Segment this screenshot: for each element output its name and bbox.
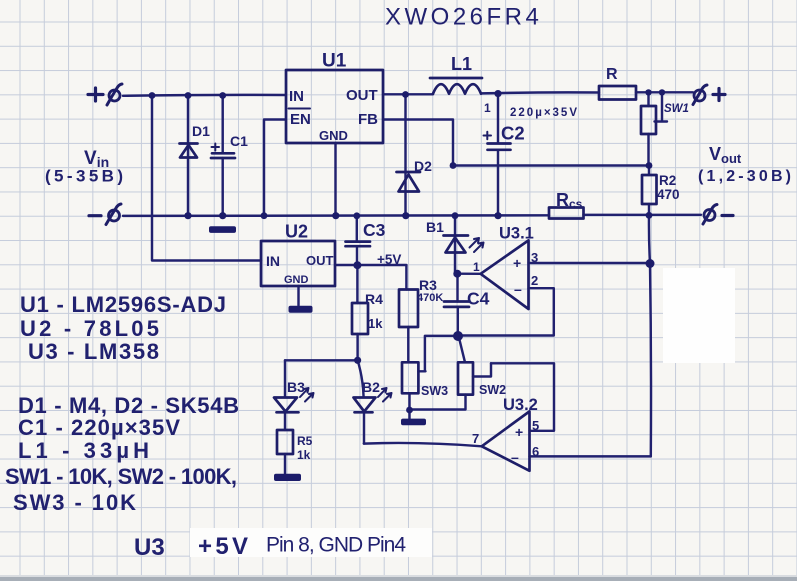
wire FB rail: [453, 164, 649, 166]
capacitor C3 plates: [346, 242, 371, 247]
junction dot +5V: [353, 261, 361, 269]
svg-text:1k: 1k: [297, 448, 311, 462]
wire SW3-SW2 bottom link: [410, 395, 466, 410]
svg-text:(5-35B): (5-35B): [45, 167, 123, 186]
junction dot SW3 bottom: [406, 407, 413, 414]
wire R4 stubs: [356, 265, 359, 360]
svg-text:–: –: [511, 449, 519, 465]
inductor L1 label underline: [430, 77, 482, 80]
junction dots FB rail: [450, 162, 457, 169]
white band behind bottom caption: [190, 528, 432, 557]
wire U3.2 pin5 loop: [491, 363, 554, 431]
wire L1 to R: [481, 92, 599, 93]
terminal Vin plus: [88, 88, 103, 101]
wire D2 branch: [404, 95, 406, 216]
svg-text:SW2: SW2: [479, 383, 506, 397]
resistor R3 box: [399, 290, 418, 328]
svg-text:1: 1: [473, 260, 480, 274]
svg-text:C1 - 220µ×35V: C1 - 220µ×35V: [18, 415, 180, 440]
svg-text:U3 - LM358: U3 - LM358: [28, 339, 159, 364]
terminal Vin minus: [89, 214, 101, 217]
svg-text:SW1: SW1: [664, 103, 689, 115]
svg-text:U2: U2: [285, 222, 308, 242]
wire B2 branch: [358, 360, 364, 443]
svg-text:EN: EN: [290, 111, 311, 128]
bottom scan edge: [0, 575, 797, 577]
svg-text:+: +: [513, 255, 521, 271]
terminal Vout minus: [704, 210, 715, 221]
plus sign of C2: [484, 132, 492, 139]
resistor R4 box: [352, 303, 368, 334]
svg-text:1: 1: [484, 101, 491, 115]
potentiometer SW3 box: [402, 362, 418, 393]
wire U1 OUT to L1: [383, 93, 433, 95]
wire FB from U1: [383, 120, 453, 166]
wire EN to ground rail: [264, 120, 286, 216]
svg-text:5: 5: [532, 418, 539, 433]
wire U2 GND stub: [297, 286, 299, 306]
wire U3.2 pin7 output: [364, 443, 482, 446]
svg-text:SW1 - 10K, SW2 - 100K,: SW1 - 10K, SW2 - 100K,: [5, 464, 237, 489]
svg-text:C2: C2: [501, 123, 525, 144]
wire C4 branch: [456, 274, 459, 333]
wire node A horizontal: [285, 359, 358, 361]
svg-text:R5: R5: [297, 434, 313, 448]
resistor Rcs box: [549, 208, 584, 219]
svg-text:C4: C4: [467, 289, 490, 309]
wire B3 branch: [284, 360, 286, 430]
svg-text:C1: C1: [230, 133, 248, 149]
svg-text:C3: C3: [363, 220, 386, 240]
wire right vertical R2 to pin6: [649, 215, 651, 456]
svg-text:OUT: OUT: [306, 253, 334, 268]
diode D1 symbol: [180, 144, 198, 158]
led B2 symbol: [354, 398, 376, 413]
svg-text:U3.2: U3.2: [503, 396, 538, 414]
svg-text:OUT: OUT: [346, 87, 378, 104]
wire U1 GND stub: [334, 143, 336, 216]
svg-text:B2: B2: [362, 379, 380, 395]
wire D1 branch: [187, 96, 189, 216]
ground bar under SW3: [401, 419, 426, 426]
wire B1 branch: [454, 216, 456, 274]
wire op-amp U3.1 pin1 output: [457, 272, 480, 275]
svg-text:B1: B1: [426, 219, 444, 235]
led B1 symbol: [444, 236, 469, 253]
diode D2 symbol: [397, 172, 421, 192]
svg-text:FB: FB: [358, 111, 378, 128]
svg-text:D1: D1: [192, 123, 210, 139]
regulator U2 box: [261, 241, 335, 286]
svg-text:U1 - LM2596S-ADJ: U1 - LM2596S-ADJ: [20, 292, 226, 317]
wire blob to SW3 wiper: [418, 336, 456, 372]
wire SW2 wiper: [473, 363, 491, 376]
svg-text:1k: 1k: [368, 316, 383, 331]
led B1 arrows: [470, 238, 484, 252]
svg-text:SW3: SW3: [421, 384, 448, 398]
svg-text:U3.1: U3.1: [499, 225, 534, 243]
capacitor C2 plates: [488, 144, 511, 150]
svg-text:+5V: +5V: [377, 252, 401, 267]
wire R5 to ground: [284, 454, 286, 474]
svg-text:2: 2: [531, 273, 538, 288]
op-amp U3.2 triangle: [482, 411, 530, 470]
svg-text:SW3 - 10K: SW3 - 10K: [13, 490, 136, 515]
whiteout patch right middle: [663, 268, 735, 363]
svg-text:U2 - 78L05: U2 - 78L05: [20, 316, 159, 341]
svg-text:R: R: [606, 66, 618, 83]
ground bar under R5: [274, 474, 301, 481]
svg-text:IN: IN: [266, 253, 280, 269]
svg-text:R2: R2: [659, 173, 676, 188]
svg-text:470: 470: [657, 187, 680, 202]
junction dots input rail: [149, 92, 156, 99]
svg-text:GND: GND: [284, 274, 309, 286]
wire C1 branch: [221, 96, 223, 154]
svg-text:6: 6: [532, 444, 539, 459]
junction dot pin3: [646, 259, 655, 268]
junction dot pin1 node: [453, 270, 461, 278]
wire left branch to U2 IN: [152, 96, 261, 261]
resistor R box: [599, 86, 636, 100]
potentiometer SW2 box: [458, 362, 473, 394]
resistor R2 box: [642, 175, 657, 204]
svg-text:R4: R4: [365, 291, 383, 307]
resistor R5 box: [277, 430, 293, 454]
svg-text:L1: L1: [451, 54, 472, 74]
wire op-amp U3.1 pin2 loop: [462, 288, 554, 335]
junction blob C4 bottom: [453, 331, 463, 341]
svg-text:220µ×35V: 220µ×35V: [510, 107, 577, 119]
wire Vin- rail: [123, 214, 549, 217]
wire R to output + terminal: [636, 91, 693, 93]
led B2 arrows: [378, 388, 392, 402]
overline of EN label: [289, 108, 311, 110]
svg-text:–: –: [514, 281, 522, 297]
svg-text:IN: IN: [289, 88, 304, 105]
svg-text:7: 7: [472, 431, 479, 446]
wire SW3 bottom to ground: [408, 393, 410, 418]
wire blob to SW2 top: [459, 337, 465, 362]
wire +5V rail: [335, 264, 406, 266]
junction dots out rail: [402, 91, 409, 98]
wire R2 stubs: [648, 166, 650, 216]
ground bar under C1: [209, 226, 236, 233]
potentiometer SW1 box: [641, 106, 656, 134]
regulator U1 box: [286, 70, 383, 143]
wire R3 top stub: [405, 265, 407, 289]
wire op-amp U3.1 pin3: [529, 262, 651, 264]
led B3 symbol: [274, 398, 299, 413]
wire Vin+ rail: [123, 94, 286, 97]
svg-text:R3: R3: [419, 277, 437, 293]
plus sign of C1: [212, 144, 220, 151]
svg-text:B3: B3: [287, 379, 305, 395]
svg-text:GND: GND: [319, 128, 348, 143]
svg-text:U1: U1: [322, 51, 347, 72]
op-amp U3.1 triangle: [481, 240, 529, 309]
svg-text:Pin 8, GND Pin4: Pin 8, GND Pin4: [266, 534, 406, 557]
svg-text:+: +: [515, 424, 523, 440]
wire U3.2 pin6: [530, 455, 651, 457]
ground bar under U2: [289, 306, 313, 313]
junction dots ground rail: [184, 212, 191, 219]
wire R3 to SW3: [407, 327, 409, 362]
svg-text:3: 3: [531, 250, 538, 265]
inductor L1 coil: [433, 84, 481, 94]
terminal Vout plus: [694, 90, 705, 101]
svg-text:U3: U3: [134, 534, 165, 561]
wire C3 branch: [356, 216, 359, 265]
wire SW1 wiper: [655, 93, 668, 122]
svg-text:470K: 470K: [417, 292, 443, 304]
wire SW1 bottom: [647, 134, 649, 166]
wire SW1 top stub: [647, 93, 649, 107]
svg-text:XWO26FR4: XWO26FR4: [385, 4, 542, 31]
svg-text:D2: D2: [414, 158, 432, 174]
led B3 arrows: [300, 388, 314, 402]
capacitor C4 plates: [444, 302, 469, 307]
junction dot node A: [354, 357, 361, 364]
wire rail Rcs to output - terminal: [584, 214, 702, 216]
svg-text:+5V: +5V: [198, 533, 248, 560]
wire C2 branch: [497, 94, 499, 143]
capacitor C1 plates: [211, 153, 235, 158]
